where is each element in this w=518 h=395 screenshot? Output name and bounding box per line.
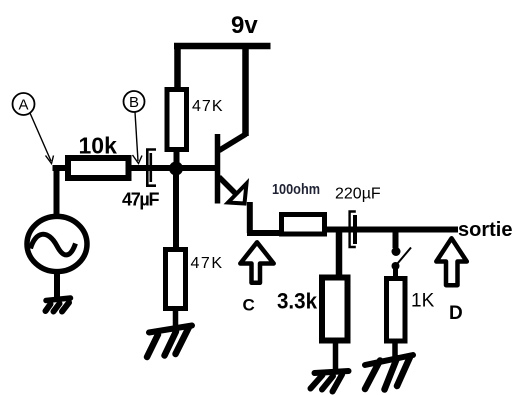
svg-text:10k: 10k xyxy=(79,133,118,159)
resistor R2 47K lower xyxy=(166,250,186,309)
svg-text:D: D xyxy=(449,303,463,324)
svg-text:1K: 1K xyxy=(411,291,435,312)
node A circled label xyxy=(13,93,54,164)
ground below 1K xyxy=(365,355,413,390)
node junction dot at base divider xyxy=(169,162,183,176)
wire 9v rail horizontal xyxy=(174,43,271,50)
wire node vertical to lower 47K xyxy=(173,168,179,250)
wire 3.3k to ground xyxy=(333,341,339,372)
resistor 1K xyxy=(387,279,406,342)
svg-text:47µF: 47µF xyxy=(122,190,160,210)
wire 100ohm to output node xyxy=(325,227,458,233)
svg-text:3.3k: 3.3k xyxy=(277,289,318,314)
svg-text:47K: 47K xyxy=(191,255,223,272)
transistor emitter arrowhead xyxy=(228,184,247,204)
ground below 47K lower xyxy=(147,326,192,358)
svg-text:B: B xyxy=(129,94,139,111)
resistor 100ohm xyxy=(282,215,325,235)
svg-text:9v: 9v xyxy=(231,12,258,39)
switch top contact dot xyxy=(392,247,401,256)
wire emitter down xyxy=(247,202,253,233)
switch blade xyxy=(398,248,412,264)
ground below 3.3k xyxy=(311,371,349,392)
resistor 10k xyxy=(68,158,129,178)
block arrow D xyxy=(436,238,467,285)
wire collector vertical xyxy=(242,43,249,136)
transistor Q1 base bar xyxy=(215,134,221,204)
node B circled label xyxy=(124,91,145,164)
svg-text:100ohm: 100ohm xyxy=(272,181,320,198)
wire switch to 1K xyxy=(393,267,398,280)
wire source vertical up xyxy=(54,165,60,216)
transistor emitter diagonal xyxy=(219,177,240,198)
resistor R1 47K upper xyxy=(167,90,187,150)
wire 47K lower to ground xyxy=(173,308,179,328)
wire rail left drop to R 47K top xyxy=(174,43,181,89)
svg-text:220µF: 220µF xyxy=(335,186,381,203)
wire 3.3k stem xyxy=(336,230,343,278)
svg-text:sortie: sortie xyxy=(458,219,512,241)
transistor collector diagonal xyxy=(219,134,246,151)
wire 1K to ground xyxy=(392,341,398,359)
wire emitter to 100ohm xyxy=(247,230,282,236)
switch bottom contact dot xyxy=(392,262,400,270)
resistor 3.3k xyxy=(322,278,348,341)
capacitor 47uF xyxy=(147,150,156,186)
capacitor 220uF xyxy=(350,212,356,248)
wire 47K upper bottom stem xyxy=(174,149,180,170)
wire input node to base (main horizontal) xyxy=(53,165,220,171)
svg-text:A: A xyxy=(18,97,28,114)
ground below source xyxy=(46,298,71,312)
block arrow C xyxy=(240,242,273,282)
svg-text:47K: 47K xyxy=(192,98,223,115)
source sine generator xyxy=(27,216,87,271)
switch to 1K: stub xyxy=(393,227,399,248)
svg-text:C: C xyxy=(243,296,255,315)
wire source to ground xyxy=(54,271,60,299)
